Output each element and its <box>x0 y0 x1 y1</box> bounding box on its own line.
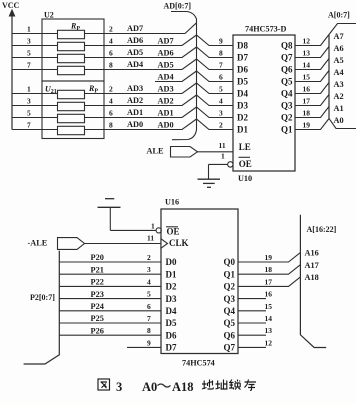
svg-text:17: 17 <box>303 97 311 106</box>
svg-text:3: 3 <box>219 109 223 118</box>
svg-text:AD3: AD3 <box>127 84 143 93</box>
svg-text:A18: A18 <box>172 380 194 394</box>
svg-text:2: 2 <box>109 85 113 94</box>
svg-text:7: 7 <box>27 60 31 69</box>
svg-text:A1: A1 <box>334 104 344 113</box>
svg-text:19: 19 <box>303 121 311 130</box>
svg-text:A0: A0 <box>334 116 344 125</box>
svg-text:D2: D2 <box>166 282 177 292</box>
svg-text:Q4: Q4 <box>224 306 236 316</box>
svg-text:2: 2 <box>147 253 151 262</box>
svg-text:A[16:22]: A[16:22] <box>307 225 337 234</box>
svg-text:4: 4 <box>147 277 151 286</box>
svg-text:6: 6 <box>219 73 223 82</box>
svg-text:1: 1 <box>27 24 31 33</box>
svg-text:D0: D0 <box>166 257 177 267</box>
svg-text:AD5: AD5 <box>127 48 143 57</box>
svg-text:AD1: AD1 <box>127 108 143 117</box>
svg-text:A7: A7 <box>334 32 344 41</box>
svg-text:5: 5 <box>27 108 31 117</box>
svg-text:2: 2 <box>109 25 113 34</box>
svg-text:14: 14 <box>303 61 311 70</box>
svg-text:13: 13 <box>303 49 311 58</box>
svg-text:D7: D7 <box>237 53 248 63</box>
svg-text:13: 13 <box>265 326 273 335</box>
svg-text:P20: P20 <box>91 253 104 262</box>
svg-text:15: 15 <box>303 73 311 82</box>
svg-text:6: 6 <box>147 302 151 311</box>
svg-text:14: 14 <box>265 314 273 323</box>
svg-text:16: 16 <box>303 85 311 94</box>
svg-text:18: 18 <box>265 265 273 274</box>
svg-text:4: 4 <box>109 97 113 106</box>
svg-text:AD2: AD2 <box>127 96 143 105</box>
svg-text:A2: A2 <box>334 92 344 101</box>
svg-text:2: 2 <box>219 121 223 130</box>
svg-text:OE: OE <box>239 159 252 169</box>
svg-text:Q7: Q7 <box>224 343 236 353</box>
svg-text:P21: P21 <box>91 265 104 274</box>
svg-text:8: 8 <box>147 326 151 335</box>
svg-text:6: 6 <box>109 109 113 118</box>
svg-text:AD4: AD4 <box>127 60 143 69</box>
svg-text:Q3: Q3 <box>224 294 236 304</box>
svg-text:1: 1 <box>151 222 155 231</box>
svg-text:A4: A4 <box>334 68 344 77</box>
svg-text:12: 12 <box>303 37 311 46</box>
svg-text:8: 8 <box>219 49 223 58</box>
svg-text:LE: LE <box>239 142 251 152</box>
svg-text:D4: D4 <box>166 306 177 316</box>
svg-text:AD[0:7]: AD[0:7] <box>164 2 192 11</box>
svg-text:Q3: Q3 <box>281 101 293 111</box>
svg-text:12: 12 <box>265 338 273 347</box>
svg-text:D5: D5 <box>166 318 177 328</box>
svg-text:19: 19 <box>265 253 273 262</box>
svg-text:D1: D1 <box>237 125 248 135</box>
svg-text:Q1: Q1 <box>224 269 236 279</box>
svg-text:17: 17 <box>265 277 273 286</box>
svg-text:3: 3 <box>116 380 122 394</box>
svg-text:AD3: AD3 <box>158 85 174 94</box>
svg-text:11: 11 <box>147 233 154 242</box>
svg-text:AD6: AD6 <box>127 36 143 45</box>
svg-text:5: 5 <box>219 85 223 94</box>
svg-text:CLK: CLK <box>169 238 189 248</box>
svg-text:7: 7 <box>27 120 31 129</box>
svg-text:Q0: Q0 <box>224 257 236 267</box>
svg-text:15: 15 <box>265 302 273 311</box>
svg-text:AD0: AD0 <box>127 120 143 129</box>
svg-text:U16: U16 <box>165 198 179 207</box>
svg-text:7: 7 <box>147 314 151 323</box>
svg-text:D6: D6 <box>237 65 248 75</box>
svg-text:Q6: Q6 <box>281 65 293 75</box>
svg-text:Q5: Q5 <box>281 77 293 87</box>
svg-text:A17: A17 <box>305 261 319 270</box>
svg-text:3: 3 <box>27 96 31 105</box>
svg-text:AD1: AD1 <box>158 109 174 118</box>
svg-text:6: 6 <box>109 49 113 58</box>
svg-text:9: 9 <box>219 37 223 46</box>
svg-text:Q5: Q5 <box>224 318 236 328</box>
svg-text:1: 1 <box>221 152 225 161</box>
svg-text:D5: D5 <box>237 77 248 87</box>
svg-text:A16: A16 <box>305 249 319 258</box>
svg-text:D8: D8 <box>237 41 248 51</box>
svg-text:P24: P24 <box>91 302 104 311</box>
svg-text:7: 7 <box>219 61 223 70</box>
svg-text:ALE: ALE <box>147 147 165 156</box>
svg-text:3: 3 <box>147 265 151 274</box>
svg-text:11: 11 <box>219 141 226 150</box>
svg-text:Q6: Q6 <box>224 330 236 340</box>
svg-text:-ALE: -ALE <box>28 239 48 248</box>
svg-text:AD0: AD0 <box>158 121 174 130</box>
svg-text:AD7: AD7 <box>127 24 143 33</box>
svg-text:D1: D1 <box>166 269 177 279</box>
svg-text:P25: P25 <box>91 314 104 323</box>
svg-text:P2[0:7]: P2[0:7] <box>30 293 55 302</box>
svg-text:18: 18 <box>303 109 311 118</box>
svg-text:Q7: Q7 <box>281 53 293 63</box>
svg-text:Q4: Q4 <box>281 89 293 99</box>
svg-text:AD7: AD7 <box>158 37 174 46</box>
svg-text:A18: A18 <box>305 273 319 282</box>
svg-text:74HC574: 74HC574 <box>182 359 215 368</box>
svg-text:D4: D4 <box>237 89 248 99</box>
svg-text:P26: P26 <box>91 326 104 335</box>
svg-text:Q2: Q2 <box>281 113 293 123</box>
svg-text:D7: D7 <box>166 343 177 353</box>
svg-text:4: 4 <box>219 97 223 106</box>
svg-text:AD2: AD2 <box>158 97 174 106</box>
svg-text:D3: D3 <box>237 101 248 111</box>
svg-text:U10: U10 <box>238 174 252 183</box>
svg-text:74HC573-D: 74HC573-D <box>245 25 286 34</box>
svg-text:Q2: Q2 <box>224 282 236 292</box>
svg-text:8: 8 <box>109 121 113 130</box>
svg-text:9: 9 <box>147 338 151 347</box>
svg-text:OE: OE <box>167 227 180 237</box>
svg-text:8: 8 <box>109 61 113 70</box>
svg-text:Q8: Q8 <box>281 41 293 51</box>
svg-text:A3: A3 <box>334 80 344 89</box>
svg-text:AD4: AD4 <box>158 73 174 82</box>
svg-text:U2: U2 <box>44 11 54 20</box>
svg-text:A0: A0 <box>142 380 157 394</box>
svg-text:5: 5 <box>27 48 31 57</box>
svg-text:A6: A6 <box>334 44 344 53</box>
svg-text:3: 3 <box>27 36 31 45</box>
svg-text:4: 4 <box>109 37 113 46</box>
svg-text:A5: A5 <box>334 56 344 65</box>
svg-text:16: 16 <box>265 290 273 299</box>
svg-text:D3: D3 <box>166 294 177 304</box>
svg-text:P23: P23 <box>91 290 104 299</box>
svg-text:AD5: AD5 <box>158 61 174 70</box>
svg-text:P22: P22 <box>91 278 104 287</box>
svg-text:D2: D2 <box>237 113 248 123</box>
svg-text:1: 1 <box>27 84 31 93</box>
svg-text:D6: D6 <box>166 330 177 340</box>
svg-text:VCC: VCC <box>2 1 20 10</box>
svg-text:A[0:7]: A[0:7] <box>328 11 350 20</box>
svg-text:AD6: AD6 <box>158 49 174 58</box>
svg-text:5: 5 <box>147 290 151 299</box>
svg-text:Q1: Q1 <box>281 125 293 135</box>
